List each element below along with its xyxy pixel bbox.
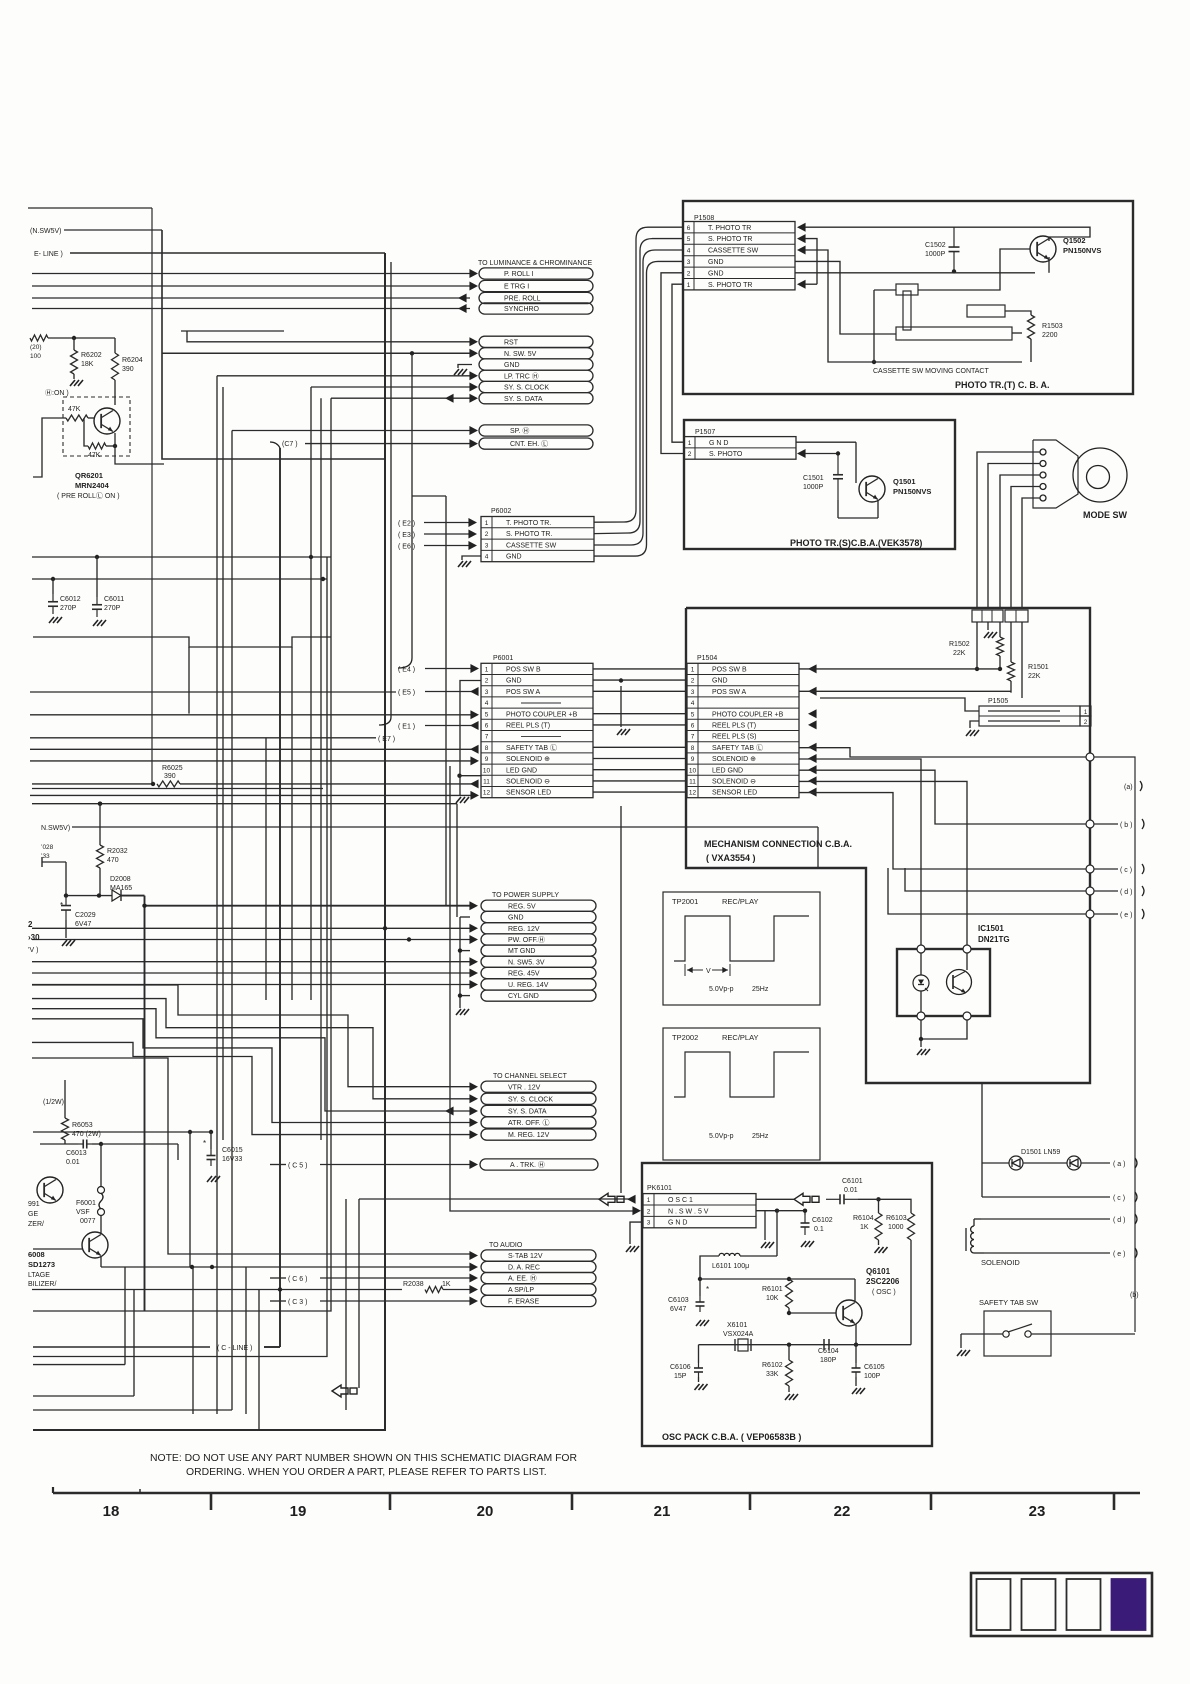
svg-text:( E7 ): ( E7 ): [378, 736, 395, 743]
svg-text:SP. Ⓗ: SP. Ⓗ: [510, 427, 529, 435]
transistor QR6201 dashed box: [63, 397, 130, 456]
wire NSW5V inner: [756, 1210, 777, 1212]
node circle b: [1086, 820, 1094, 828]
svg-text:POS SW A: POS SW A: [506, 689, 541, 696]
wire GND pill stub: [460, 916, 470, 918]
svg-text:0.1: 0.1: [814, 1226, 824, 1233]
wire plunger feed: [874, 289, 896, 291]
svg-text:LP. TRC Ⓗ: LP. TRC Ⓗ: [504, 372, 539, 380]
ground P6002: [462, 556, 481, 560]
svg-text:*: *: [203, 1139, 206, 1148]
svg-text:2: 2: [688, 451, 692, 458]
svg-text:TO AUDIO: TO AUDIO: [489, 1242, 523, 1249]
svg-text:*: *: [60, 901, 63, 910]
svg-text:*: *: [706, 1285, 709, 1294]
svg-text:270P: 270P: [104, 605, 121, 612]
wire Q1502 base: [918, 249, 1030, 290]
component IC1501 photo-tr: [966, 953, 968, 970]
svg-text:REEL PLS (S): REEL PLS (S): [712, 734, 756, 741]
svg-text:22K: 22K: [1028, 673, 1041, 680]
svg-text:2: 2: [687, 270, 691, 277]
capacitor C6105: [855, 1345, 857, 1363]
svg-text:6008: 6008: [28, 1250, 45, 1259]
svg-text:5: 5: [687, 236, 691, 243]
transistor QR6201: [94, 408, 120, 434]
svg-text:18: 18: [103, 1503, 120, 1520]
svg-text:PHOTO COUPLER +B: PHOTO COUPLER +B: [506, 711, 578, 718]
capacitor C6015: [188, 1130, 192, 1134]
svg-text:PHOTO TR.(T) C. B. A.: PHOTO TR.(T) C. B. A.: [955, 380, 1050, 390]
box PHOTO TR(T): [683, 201, 1133, 394]
component safety tab box: [984, 1311, 1051, 1356]
svg-text:390: 390: [164, 773, 176, 780]
node IC pin tl: [917, 945, 925, 953]
wire link row8: [593, 746, 687, 748]
inductor L6101: [740, 1255, 777, 1257]
node mode-sw pin3: [1040, 472, 1046, 478]
svg-text:10K: 10K: [766, 1295, 779, 1302]
svg-text:( E1 ): ( E1 ): [398, 724, 415, 731]
svg-text:C6105: C6105: [864, 1364, 885, 1371]
resistor R6102: [788, 1345, 790, 1360]
svg-text:C6103: C6103: [668, 1297, 689, 1304]
svg-text:SOLENOID ⊖: SOLENOID ⊖: [506, 779, 550, 786]
wire v446b: [445, 496, 447, 906]
svg-text:10: 10: [483, 767, 491, 774]
svg-text:POS SW B: POS SW B: [712, 667, 747, 674]
svg-text:’V ): ’V ): [28, 947, 39, 954]
node pill VTR . 12V: [481, 1081, 596, 1092]
svg-text:( e ): ( e ): [1120, 912, 1132, 919]
svg-text:DN21TG: DN21TG: [978, 935, 1010, 944]
wire row5 to P1505: [799, 714, 820, 716]
capacitor C6012: [52, 579, 54, 594]
svg-text:GND: GND: [708, 270, 724, 277]
resistor R1503: [1005, 311, 1031, 315]
wire link row3: [593, 690, 687, 692]
node pill A.TRK: [480, 1159, 598, 1170]
capacitor C6106: [698, 1345, 700, 1363]
wire RST line: [187, 331, 470, 342]
svg-text:A. EE. Ⓗ: A. EE. Ⓗ: [508, 1275, 537, 1283]
svg-text:LED GND: LED GND: [506, 767, 537, 774]
svg-text:REG. 12V: REG. 12V: [508, 926, 540, 933]
wire E TRG line: [32, 285, 470, 287]
svg-text:( VXA3554 ): ( VXA3554 ): [706, 853, 756, 863]
svg-text:47K: 47K: [68, 406, 81, 413]
node mode-sw pin1: [1040, 449, 1046, 455]
svg-text:6: 6: [485, 723, 489, 730]
svg-text:REEL PLS (T): REEL PLS (T): [506, 723, 550, 730]
wire P1508 row6 line: [797, 223, 806, 232]
svg-text:R6103: R6103: [886, 1215, 907, 1222]
component TP2002 box: [663, 1028, 820, 1160]
component mode-sw connector: [1033, 440, 1078, 508]
wire link row5: [593, 713, 687, 715]
svg-text:PN150NVS: PN150NVS: [1063, 246, 1101, 255]
svg-text:(20): (20): [30, 344, 42, 351]
svg-text:G N D: G N D: [709, 440, 728, 447]
component safety switch: [1003, 1331, 1009, 1337]
component LED2: [1067, 1156, 1081, 1170]
svg-text:4: 4: [485, 554, 489, 561]
svg-text:1000P: 1000P: [925, 251, 946, 258]
svg-text:SENSOR LED: SENSOR LED: [506, 790, 551, 797]
wire CYL GND stub: [460, 995, 470, 997]
node pill A. EE. Ⓗ: [481, 1272, 596, 1283]
svg-text:8: 8: [691, 745, 695, 752]
resistor R6103: [908, 1213, 915, 1240]
ruler tick 1: [389, 1493, 392, 1510]
svg-text:MT GND: MT GND: [508, 948, 535, 955]
wire LP.TRC line: [217, 375, 470, 377]
component cassette fixed bar: [967, 305, 1005, 317]
node pill ATR. OFF. Ⓛ: [481, 1117, 596, 1128]
svg-text:T. PHOTO TR.: T. PHOTO TR.: [506, 520, 551, 527]
svg-text:( E2 ): ( E2 ): [398, 521, 415, 528]
svg-text:’028: ’028: [41, 844, 54, 851]
fuse F6001: [100, 1144, 102, 1186]
wire led right: [1081, 1162, 1110, 1164]
wire row9 to IC: [799, 759, 921, 949]
wire PW.OFF line: [32, 939, 470, 941]
svg-text:CNT. EH. Ⓛ: CNT. EH. Ⓛ: [510, 440, 548, 448]
wire x818 drop: [817, 827, 819, 868]
svg-text:VSF: VSF: [76, 1209, 90, 1216]
svg-text:20: 20: [477, 1503, 494, 1520]
box PHOTO TR(S): [684, 420, 955, 549]
wire NSW5V osc line: [450, 766, 637, 1211]
svg-text:1K: 1K: [442, 1281, 451, 1288]
svg-text:16V33: 16V33: [222, 1156, 242, 1163]
svg-text:0.01: 0.01: [66, 1159, 80, 1166]
wire safety right: [1031, 1333, 1135, 1335]
capacitor C2029: [65, 896, 67, 906]
svg-text:GND: GND: [506, 678, 522, 685]
svg-text:390: 390: [122, 366, 134, 373]
svg-text:SOLENOID ⊕: SOLENOID ⊕: [506, 756, 550, 763]
svg-text:6V47: 6V47: [75, 921, 91, 928]
node pill SYNCHRO: [479, 303, 593, 314]
node pill CNT. EH. Ⓛ: [479, 438, 593, 449]
node circle d: [1086, 887, 1094, 895]
wire S-TAB line: [32, 1058, 470, 1254]
wire ch nest3: [32, 1009, 470, 1111]
ground GND pill: [458, 365, 472, 369]
svg-text:SOLENOID: SOLENOID: [981, 1258, 1020, 1267]
svg-text:11: 11: [689, 779, 696, 786]
svg-text:GND: GND: [712, 678, 728, 685]
svg-text:E TRG I: E TRG I: [504, 284, 529, 291]
wire A.TRK line: [320, 1164, 470, 1166]
node pill PRE. ROLL: [479, 292, 593, 303]
svg-text:MRN2404: MRN2404: [75, 481, 110, 490]
wire PRE ROLL line: [32, 297, 470, 299]
svg-text:REG. 5V: REG. 5V: [508, 903, 536, 910]
wire C7 vertical: [279, 448, 281, 1347]
wire QR emitter: [115, 433, 164, 464]
wire P1508 row5 U: [797, 234, 806, 243]
svg-text:8: 8: [485, 745, 489, 752]
ruler tick 5: [1113, 1493, 1116, 1510]
transistor Q1501: [859, 476, 885, 502]
wire UREG14V line: [32, 984, 470, 986]
svg-text:18K: 18K: [81, 361, 94, 368]
svg-text:A SP/LP: A SP/LP: [508, 1287, 534, 1294]
wire P1508 row5 curve: [652, 238, 683, 240]
wire e line: [984, 1252, 1110, 1254]
svg-text:( OSC ): ( OSC ): [872, 1289, 896, 1296]
wire Q6101 collector: [854, 1287, 856, 1302]
wire pin1 drop: [976, 622, 978, 669]
wire row12 long: [30, 794, 472, 796]
svg-text:SD1273: SD1273: [28, 1260, 55, 1269]
wire h579: [32, 578, 327, 580]
svg-text:3: 3: [647, 1220, 651, 1227]
svg-text:SAFETY TAB Ⓛ: SAFETY TAB Ⓛ: [712, 744, 763, 752]
node pill P. ROLL I: [479, 268, 593, 279]
wire h557: [32, 556, 331, 558]
svg-text:2: 2: [691, 678, 695, 685]
svg-text:A . TRK. Ⓗ: A . TRK. Ⓗ: [510, 1161, 545, 1169]
svg-text:22K: 22K: [953, 650, 966, 657]
wire osc bus: [700, 1278, 855, 1280]
svg-text:S. PHOTO TR: S. PHOTO TR: [708, 282, 752, 289]
wire Q1501 base: [856, 442, 859, 489]
svg-text:R1502: R1502: [949, 641, 970, 648]
node pill GND: [481, 911, 596, 922]
wire P1508 row1 drop: [672, 284, 684, 442]
component IC1501 box: [897, 949, 990, 1016]
component page-index outer: [971, 1573, 1152, 1636]
node IC pin bl: [917, 1012, 925, 1020]
svg-text:SOLENOID ⊖: SOLENOID ⊖: [712, 779, 756, 786]
svg-text:R2032: R2032: [107, 848, 128, 855]
svg-text:GND: GND: [506, 554, 522, 561]
ruler left end tick: [52, 1487, 54, 1493]
svg-text:6: 6: [691, 723, 695, 730]
wire A-SP/LP line: [32, 1289, 402, 1291]
wire PK row1 arrows: [627, 1195, 636, 1204]
svg-text:9: 9: [485, 756, 489, 763]
svg-text:PHOTO TR.(S)C.B.A.(VEK3578): PHOTO TR.(S)C.B.A.(VEK3578): [790, 538, 922, 548]
wire P1505 feed: [820, 698, 979, 711]
svg-text:5: 5: [691, 711, 695, 718]
svg-text:REC/PLAY: REC/PLAY: [722, 1033, 759, 1042]
svg-text:6: 6: [687, 225, 691, 232]
svg-text:C6015: C6015: [222, 1147, 243, 1154]
svg-text:MODE SW: MODE SW: [1083, 510, 1128, 520]
svg-text:2SC2206: 2SC2206: [866, 1277, 900, 1286]
svg-text:3: 3: [687, 259, 691, 266]
svg-text:R6101: R6101: [762, 1286, 783, 1293]
node pill N. SW5. 3V: [481, 956, 596, 967]
component solenoid: [974, 1218, 981, 1220]
wire mode-sw pin2: [988, 464, 1040, 609]
svg-text:ATR. OFF. Ⓛ: ATR. OFF. Ⓛ: [508, 1119, 549, 1127]
svg-text:SAFETY TAB SW: SAFETY TAB SW: [979, 1298, 1039, 1307]
svg-text:3: 3: [485, 689, 489, 696]
svg-text:TP2002: TP2002: [672, 1033, 698, 1042]
node mode-sw pin2: [1040, 461, 1046, 467]
svg-text:C6101: C6101: [842, 1178, 863, 1185]
node pill LP. TRC Ⓗ: [479, 370, 593, 381]
node pill REG. 45V: [481, 967, 596, 978]
node pill SY. S. DATA: [479, 393, 593, 404]
svg-text:15P: 15P: [674, 1373, 687, 1380]
svg-text:P1504: P1504: [697, 655, 717, 662]
svg-text:PW. OFF.Ⓗ: PW. OFF.Ⓗ: [508, 936, 545, 944]
svg-text:5.0Vp-p: 5.0Vp-p: [709, 986, 734, 993]
wire h1365: [33, 1364, 125, 1366]
svg-text:1: 1: [485, 520, 489, 527]
wire POS SW A right: [799, 690, 1011, 692]
svg-text:C1501: C1501: [803, 475, 824, 482]
svg-text:REEL PLS (T): REEL PLS (T): [712, 723, 756, 730]
wire REG5V line: [145, 905, 471, 907]
svg-text:(N.SW5V): (N.SW5V): [30, 228, 62, 235]
wire NSW53V line: [32, 961, 470, 963]
ruler main line: [53, 1492, 1140, 1495]
svg-text:C6013: C6013: [66, 1150, 87, 1157]
svg-text:F. ERASE: F. ERASE: [508, 1299, 539, 1306]
wire IC out: [920, 1020, 922, 1039]
wire row10 route: [799, 770, 1086, 824]
wire P1508 row2 drop: [661, 273, 684, 454]
resistor R2032: [98, 802, 102, 806]
wire led mid: [1023, 1162, 1067, 1164]
svg-text:1000P: 1000P: [803, 484, 824, 491]
wire Q6101 base: [789, 1312, 836, 1314]
wire vert right edge: [1094, 757, 1135, 1332]
wire P1507 row1 ext: [796, 441, 856, 443]
svg-text:R2038: R2038: [403, 1281, 424, 1288]
wire h637-647 jog: [33, 637, 331, 647]
svg-text:S. PHOTO TR: S. PHOTO TR: [708, 236, 752, 243]
svg-text:33K: 33K: [766, 1371, 779, 1378]
svg-text:N.SW5V): N.SW5V): [41, 825, 70, 832]
svg-text:F6001: F6001: [76, 1200, 96, 1207]
svg-text:( b ): ( b ): [1120, 822, 1132, 829]
wire NSW5V gnd stub: [755, 1211, 757, 1237]
svg-text:MECHANISM CONNECTION C.B.A.: MECHANISM CONNECTION C.B.A.: [704, 839, 852, 849]
svg-text:O S C 1: O S C 1: [668, 1197, 693, 1204]
svg-text:( e ): ( e ): [1113, 1251, 1125, 1258]
svg-text:1: 1: [691, 667, 695, 674]
ground mode pin2: [987, 622, 989, 630]
ruler tick 3: [749, 1493, 752, 1510]
node mode-sw pin5: [1040, 495, 1046, 501]
component cassette moving bar: [896, 327, 1012, 340]
wire stub y331: [181, 330, 284, 332]
svg-text:PRE. ROLL: PRE. ROLL: [504, 296, 541, 303]
wire OSC1 long line: [359, 1198, 629, 1200]
wire v621: [620, 806, 622, 1193]
svg-text:( C 5 ): ( C 5 ): [288, 1163, 307, 1170]
svg-text:SY. S. CLOCK: SY. S. CLOCK: [508, 1096, 553, 1103]
svg-text:( a ): ( a ): [1113, 1161, 1125, 1168]
svg-text:LTAGE: LTAGE: [28, 1272, 50, 1279]
svg-text:RST: RST: [504, 339, 519, 346]
wire REG12V line: [32, 927, 470, 929]
svg-text:( E5 ): ( E5 ): [398, 690, 415, 697]
wire SY.S.CLOCK line: [311, 386, 470, 388]
wire C1501 bottom: [837, 500, 839, 518]
svg-text:(1/2W): (1/2W): [43, 1099, 64, 1106]
svg-text:( d ): ( d ): [1113, 1217, 1125, 1224]
svg-text:GND: GND: [508, 915, 524, 922]
wire ch nest4: [32, 1019, 470, 1123]
svg-text:23: 23: [1029, 1503, 1046, 1520]
svg-text:R6053: R6053: [72, 1122, 93, 1129]
svg-text:( C 6 ): ( C 6 ): [288, 1276, 307, 1283]
wire OSC1 inner: [756, 1198, 794, 1200]
svg-text:TO LUMINANCE & CHROMINANCE: TO LUMINANCE & CHROMINANCE: [478, 260, 593, 267]
wire h804: [32, 803, 457, 805]
wire mode-sw pin5: [1022, 498, 1040, 608]
svg-text:( PRE ROLLⓁ ON ): ( PRE ROLLⓁ ON ): [57, 492, 120, 500]
wire vertical x327: [33, 557, 327, 1357]
wire route d: [905, 868, 1086, 891]
resistor R6104: [878, 1199, 880, 1213]
svg-text:BILIZER/: BILIZER/: [28, 1281, 56, 1288]
wire c line: [982, 1196, 1110, 1198]
node pill D. A. REC: [481, 1261, 596, 1272]
svg-text:N . S W . 5 V: N . S W . 5 V: [668, 1208, 709, 1215]
svg-text:( c ): ( c ): [1120, 867, 1132, 874]
ground R6202: [73, 374, 75, 379]
component top connector strip: [972, 610, 1003, 622]
svg-text:19: 19: [290, 1503, 307, 1520]
svg-text:SYNCHRO: SYNCHRO: [504, 306, 540, 313]
wire 2SD1273 emitter: [100, 1256, 102, 1267]
svg-text:470: 470: [107, 857, 119, 864]
svg-text:47K: 47K: [88, 452, 101, 459]
wire N.SW.5V line: [162, 352, 470, 354]
svg-text:25Hz: 25Hz: [752, 986, 769, 993]
svg-text:Ⓗ:ON ): Ⓗ:ON ): [45, 389, 69, 397]
svg-text:REC/PLAY: REC/PLAY: [722, 897, 759, 906]
node pill SP. Ⓗ: [479, 425, 593, 436]
svg-text:D1501 LN59: D1501 LN59: [1021, 1149, 1060, 1156]
wire row11 long: [32, 783, 155, 785]
resistor R1501: [1010, 622, 1012, 662]
resistor R6053: [64, 1080, 66, 1118]
ground IC1501: [917, 1049, 922, 1055]
svg-text:( E3 ): ( E3 ): [398, 532, 415, 539]
wire x359 drop: [358, 1199, 360, 1388]
wire C6013 right: [101, 1143, 178, 1145]
wire SY.S.DATA line: [331, 397, 470, 399]
component TP2001 box: [663, 892, 820, 1005]
wire led line a: [982, 1162, 1009, 1164]
svg-text:0077: 0077: [80, 1218, 96, 1225]
component mode-sw rotor: [1073, 448, 1127, 502]
resistor R201 input: [30, 335, 48, 341]
wire ch nest5: [32, 1042, 470, 1134]
svg-text:22: 22: [834, 1503, 851, 1520]
svg-text:IC1501: IC1501: [978, 924, 1004, 933]
svg-text:P1505: P1505: [988, 698, 1008, 705]
svg-text:OSC PACK C.B.A. ( VEP06583B: OSC PACK C.B.A. ( VEP06583B ): [662, 1432, 801, 1442]
svg-text:991: 991: [28, 1201, 40, 1208]
svg-text:3: 3: [691, 689, 695, 696]
svg-text:SY. S. DATA: SY. S. DATA: [504, 396, 543, 403]
component page-index sq2: [1022, 1579, 1056, 1630]
svg-text:S·TAB 12V: S·TAB 12V: [508, 1253, 543, 1260]
svg-text:R1501: R1501: [1028, 664, 1049, 671]
node pill F. ERASE: [481, 1295, 596, 1306]
